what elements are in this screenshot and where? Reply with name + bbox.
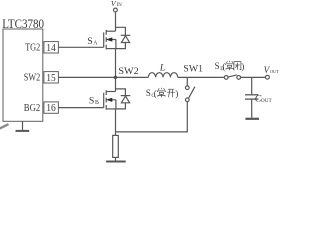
transistor Q1 SA (MOSFET) <box>104 30 116 50</box>
svg-text:OUT: OUT <box>261 98 273 104</box>
svg-text:): ) <box>175 89 178 99</box>
svg-text:S: S <box>87 36 92 47</box>
svg-text:(: ( <box>154 89 157 99</box>
wire SW2 node to inductor <box>116 76 149 78</box>
svg-text:SW2: SW2 <box>118 66 138 77</box>
terminal VOUT <box>266 75 270 79</box>
resistor R1 (sense) <box>113 135 119 157</box>
wire resistor to ground <box>115 157 117 160</box>
svg-text:15: 15 <box>46 73 56 84</box>
diode D2 (SB body diode) <box>116 89 131 109</box>
hanzi chang <box>157 88 165 98</box>
terminal VIN <box>114 8 118 12</box>
hanzi chang <box>226 61 234 71</box>
wire VIN to SA drain <box>115 12 117 31</box>
wire VOUT rail to COUT <box>251 77 253 94</box>
pin 15 box <box>44 72 59 83</box>
svg-text:IN: IN <box>117 3 123 8</box>
wire SC to bottom rail <box>116 102 188 132</box>
hanzi kai <box>167 89 175 97</box>
pin 14 box <box>44 42 59 53</box>
svg-text:(: ( <box>222 62 225 72</box>
switch SC (normally open) <box>185 86 194 102</box>
svg-text:B: B <box>95 100 99 106</box>
svg-text:S: S <box>89 95 94 106</box>
svg-text:SW2: SW2 <box>24 72 40 83</box>
svg-text:16: 16 <box>46 103 56 114</box>
svg-text:SW1: SW1 <box>183 63 203 74</box>
ground (COUT) <box>245 118 259 120</box>
inductor L1 <box>148 73 177 78</box>
hanzi bi <box>234 62 241 71</box>
capacitor COUT <box>245 95 259 118</box>
scan artifact mark (left edge) <box>0 124 9 129</box>
wire TG2 to SA gate <box>58 46 103 48</box>
svg-text:BG2: BG2 <box>24 103 40 114</box>
ground (resistor) <box>106 161 126 163</box>
node SW2 junction <box>114 76 117 79</box>
svg-text:S: S <box>215 61 220 71</box>
diode D1 (SA body diode) <box>116 27 131 48</box>
svg-text:S: S <box>146 88 151 98</box>
switch SD (normally closed) <box>224 75 240 79</box>
wire SW2 node to SB drain <box>115 77 117 91</box>
wire SB source down to resistor <box>115 109 117 135</box>
pin 16 box <box>44 102 59 113</box>
svg-text:L: L <box>159 64 165 74</box>
transistor Q2 SB (MOSFET) <box>104 90 116 110</box>
wire IC ground stem <box>22 121 24 130</box>
svg-text:OUT: OUT <box>270 69 280 74</box>
switch SC label S_C(chang kai) <box>146 88 179 99</box>
svg-text:): ) <box>241 62 244 72</box>
wire SD to VOUT <box>241 76 266 78</box>
svg-text:TG2: TG2 <box>25 42 40 53</box>
svg-text:14: 14 <box>46 43 56 54</box>
wire SA source to SW2 node <box>115 49 117 78</box>
wire SW2 pin to SW2 node <box>58 76 115 78</box>
switch SD label S_D(chang bi) <box>215 61 245 72</box>
wire SW1 node to SC switch <box>186 77 188 85</box>
op-amp U1 LTC3780 body <box>3 29 43 121</box>
wire BG2 to SB gate <box>58 107 103 109</box>
ground (IC) <box>16 130 30 132</box>
wire inductor to SD switch <box>178 76 225 78</box>
